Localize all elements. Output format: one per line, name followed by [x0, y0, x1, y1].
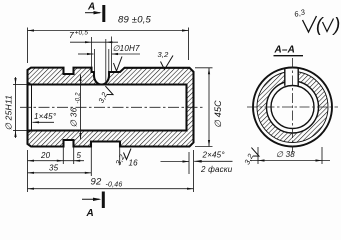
- dim 5: [73, 148, 75, 165]
- dim 16: [188, 152, 190, 174]
- svg-text:5: 5: [77, 151, 82, 160]
- svg-text:A: A: [87, 2, 95, 13]
- bore chamfer edge line: [31, 84, 33, 132]
- svg-text:A–A: A–A: [274, 45, 296, 56]
- outer circle O45: [253, 68, 332, 147]
- dim 7+0,5: [70, 41, 118, 43]
- slot white cut: [285, 64, 298, 84]
- svg-text:): ): [332, 15, 341, 36]
- bore circle O25: [271, 86, 314, 129]
- svg-text:89 ±0,5: 89 ±0,5: [118, 15, 152, 26]
- notch right wall extension: [119, 147, 121, 165]
- dim 20: [27, 150, 29, 192]
- chamfer circle: [257, 72, 328, 143]
- svg-text:∅10H7: ∅10H7: [113, 44, 140, 53]
- svg-text:16: 16: [129, 159, 139, 168]
- svg-text:92: 92: [91, 177, 102, 188]
- hatched ring: [257, 72, 328, 143]
- A-A centerlines: [292, 58, 294, 153]
- slot walls: [284, 69, 286, 86]
- bore chamfer 1x45 top: [28, 82, 32, 85]
- section plane arrow A top: [102, 5, 105, 22]
- dim O25H11 left: [13, 84, 27, 86]
- svg-text:∅ 36: ∅ 36: [69, 107, 79, 127]
- svg-text:-0,46: -0,46: [106, 182, 123, 189]
- svg-text:-0,2: -0,2: [76, 92, 82, 104]
- bore chamfer 1x45 bottom: [28, 131, 32, 134]
- svg-text:2 фаски: 2 фаски: [200, 165, 233, 174]
- roughness 3,2 at A-A: [242, 147, 261, 168]
- body section (hatched material): [28, 68, 194, 147]
- roughness 3,2 near hole step: [114, 57, 123, 72]
- dim 89 +-0,5: [27, 28, 29, 64]
- hole wall extension lines: [91, 37, 93, 67]
- roughness 3,2 inside bore: [96, 85, 115, 106]
- section plane arrow A bottom: [102, 192, 105, 209]
- svg-text:3,2: 3,2: [158, 50, 170, 59]
- dim O45C right: [195, 67, 213, 69]
- svg-text:2×45°: 2×45°: [202, 151, 226, 160]
- svg-text:1×45°: 1×45°: [34, 112, 57, 121]
- svg-text:35: 35: [49, 164, 59, 173]
- roughness 3,2 at bottom notch: [114, 152, 127, 167]
- ring O38: [267, 81, 319, 133]
- svg-text:A: A: [86, 208, 94, 217]
- dim O38: [257, 147, 259, 164]
- svg-text:7: 7: [69, 30, 74, 40]
- svg-text:∅ 38: ∅ 38: [276, 150, 295, 159]
- svg-text:∅ 45C: ∅ 45C: [213, 100, 223, 128]
- centerline main view: [20, 106, 203, 108]
- label 2x45 2 faski with leader: [194, 160, 202, 163]
- svg-text:20: 20: [40, 151, 51, 160]
- dim O10H7: [78, 53, 94, 55]
- svg-text:∅ 25H11: ∅ 25H11: [4, 95, 14, 131]
- dim 92-0,46: [193, 150, 195, 192]
- dim O36-0,2: [80, 75, 82, 140]
- dim 35: [90, 147, 92, 176]
